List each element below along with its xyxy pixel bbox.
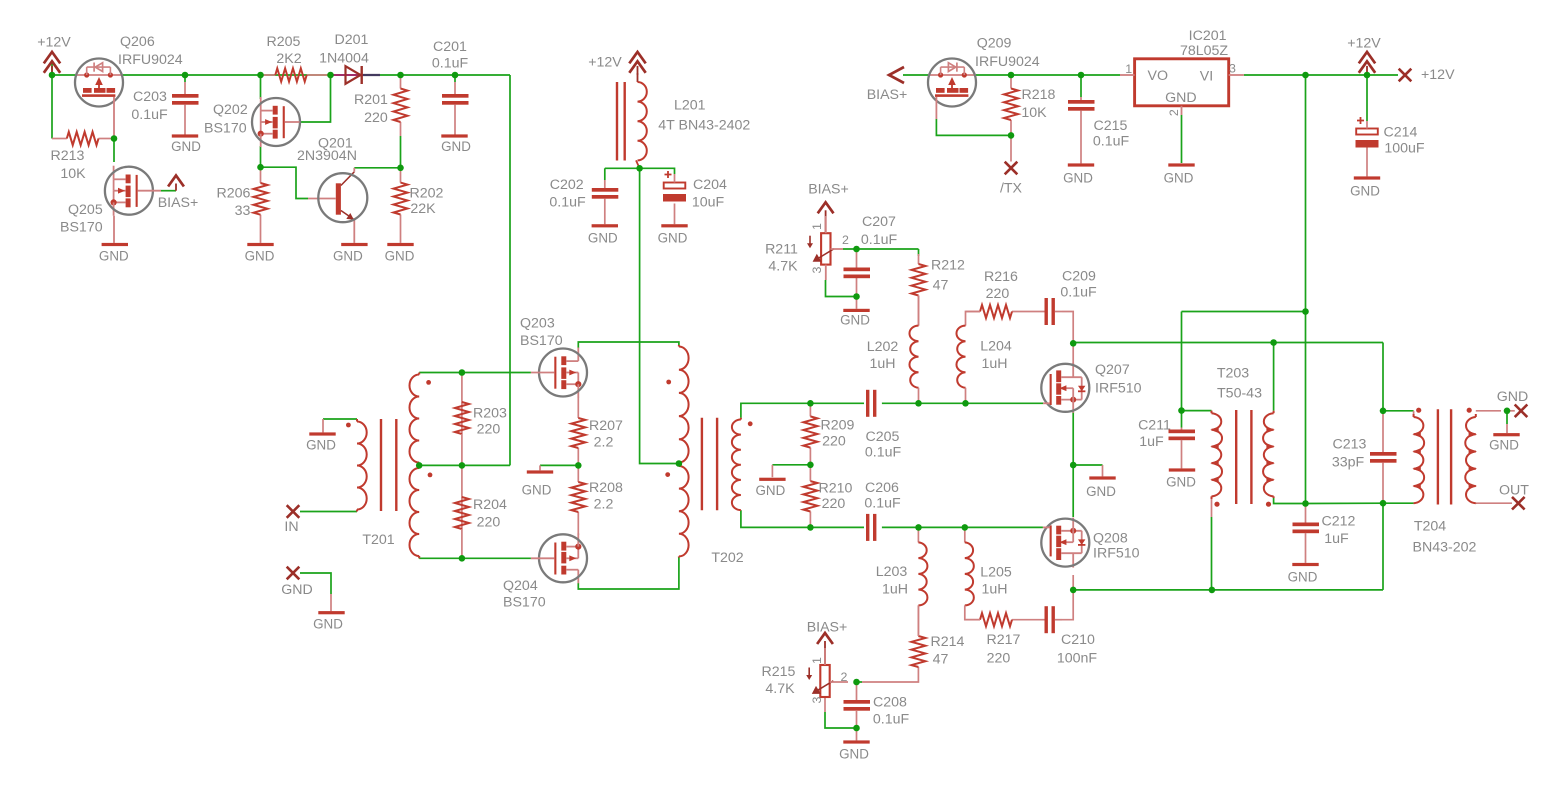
capacitor C205 0.1uF [865, 390, 902, 461]
junction at (1073.2,589.9) [1070, 587, 1077, 594]
svg-text:+12V: +12V [1347, 35, 1381, 51]
junction at (461.9,465.4) [459, 462, 466, 469]
svg-text:1uH: 1uH [981, 581, 1007, 597]
svg-text:1uH: 1uH [869, 356, 895, 372]
svg-text:GND: GND [171, 139, 201, 154]
wire R213 to Q205 drain [113, 139, 115, 163]
svg-text:GND: GND [658, 230, 688, 245]
svg-text:Q203: Q203 [520, 315, 555, 331]
capacitor C203 0.1uF [131, 82, 198, 135]
junction at (1011,75) [1008, 72, 1015, 79]
svg-text:IN: IN [284, 519, 298, 535]
svg-text:R214: R214 [931, 634, 965, 650]
transformer T204 core [1438, 409, 1451, 504]
svg-text:C203: C203 [133, 89, 167, 105]
wire Q208 source net [1073, 575, 1212, 590]
resistor R205 2K2 [261, 34, 331, 82]
trimmer R215 4.7K [762, 648, 848, 703]
junction at (260.5,167.2) [257, 164, 264, 171]
svg-text:GND: GND [245, 249, 275, 264]
transformer T203 left polarity dot [1214, 502, 1219, 507]
svg-text:IRFU9024: IRFU9024 [118, 52, 183, 68]
svg-text:GND: GND [588, 230, 618, 245]
wire Q202 source to R206/Q201 base [261, 146, 309, 199]
ground C204 [658, 224, 688, 245]
svg-text:33pF: 33pF [1332, 454, 1365, 470]
svg-text:220: 220 [364, 110, 388, 126]
capacitor C207 0.1uF [844, 214, 898, 278]
resistor R216 220 [966, 269, 1045, 318]
transformer T204 right winding [1465, 414, 1477, 503]
svg-text:GND: GND [281, 582, 313, 598]
junction at (1081,75) [1078, 72, 1085, 79]
svg-text:GND: GND [1164, 171, 1194, 186]
junction at (419.2,465.4) [416, 462, 423, 469]
svg-text:GND: GND [1350, 184, 1380, 199]
svg-text:2N3904N: 2N3904N [297, 148, 357, 164]
svg-text:R209: R209 [821, 417, 855, 433]
ground T201 stub [306, 432, 336, 452]
junction at (1073.2,465) [1070, 462, 1077, 469]
junction at (461.9,372.5) [459, 369, 466, 376]
wire C211 junction to T203 left [1182, 411, 1212, 428]
wire R215 pin3 to C208 bottom [825, 697, 857, 728]
svg-text:+12V: +12V [1421, 67, 1455, 83]
svg-text:10uF: 10uF [692, 194, 725, 210]
wire C205 rail [810, 402, 1043, 404]
wire C201 top [454, 75, 456, 82]
wire BIAS+ to Q209 [903, 74, 928, 76]
transformer T202 primary bottom dot [665, 472, 670, 477]
junction at (1383,503.2) [1380, 500, 1387, 507]
wire Q205 gate to BIAS+ [161, 190, 176, 192]
svg-text:GND: GND [756, 483, 786, 498]
svg-text:0.1uF: 0.1uF [131, 107, 168, 123]
svg-text:R217: R217 [987, 632, 1021, 648]
junction at (260.5,75) [257, 72, 264, 79]
wire R211 pin3 to C208 gnd net [826, 280, 857, 297]
transformer T203 left winding [1210, 411, 1222, 499]
resistor R218 10K [1004, 75, 1056, 135]
transistor Q205 BS170 [60, 166, 161, 243]
wire +12V rail top-left [52, 63, 75, 138]
svg-text:GND: GND [1497, 389, 1529, 405]
svg-text:0.1uF: 0.1uF [1060, 284, 1097, 300]
junction at (1073.2,343.3) [1070, 340, 1077, 347]
wire C206 rail [810, 526, 1043, 528]
svg-text:D201: D201 [335, 32, 369, 48]
transistor Q203 BS170 [520, 315, 587, 397]
svg-text:T203: T203 [1217, 365, 1249, 381]
svg-text:1N4004: 1N4004 [319, 50, 369, 66]
svg-text:L202: L202 [867, 339, 899, 355]
+12V supply symbol at L201 [588, 52, 645, 75]
wire L201 tap right to C204 [640, 168, 675, 174]
svg-text:IRFU9024: IRFU9024 [975, 54, 1040, 70]
X mark +12V [1399, 67, 1455, 83]
svg-text:Q204: Q204 [503, 578, 538, 594]
transistor Q207 IRF510 [1041, 362, 1141, 413]
svg-text:VO: VO [1148, 68, 1169, 84]
svg-text:L205: L205 [980, 564, 1012, 580]
wire R209/R210 junction to T202 GND [772, 465, 810, 477]
svg-text:R212: R212 [931, 257, 965, 273]
svg-text:3: 3 [810, 696, 824, 703]
junction at (856.5,296.5) [853, 293, 860, 300]
svg-text:GND: GND [99, 249, 129, 264]
ground C202 [588, 224, 618, 245]
svg-text:0.1uF: 0.1uF [861, 232, 898, 248]
wire R201 bottom to junction [400, 136, 402, 168]
svg-text:0.1uF: 0.1uF [432, 55, 469, 71]
svg-text:R216: R216 [984, 269, 1018, 285]
transformer T202 secondary dot [748, 421, 753, 426]
svg-text:C204: C204 [693, 177, 727, 193]
junction at (810.4,464.8) [807, 462, 814, 469]
wire R207/R208 junction to GND stub [540, 465, 578, 470]
svg-text:GND: GND [1288, 570, 1318, 585]
wire IC201 pin3 to +12V [1244, 74, 1398, 76]
wire IC201 GND pin [1181, 115, 1183, 163]
svg-text:100uF: 100uF [1384, 140, 1425, 156]
transformer T203 right winding [1263, 411, 1275, 498]
transformer T201 label [362, 532, 394, 548]
wire +12V vertical rail right [1305, 75, 1307, 504]
ground C212 [1288, 563, 1319, 585]
svg-text:GND: GND [840, 313, 870, 328]
junction at (918.5,527.4) [915, 524, 922, 531]
svg-text:C202: C202 [550, 177, 584, 193]
svg-text:1uH: 1uH [882, 581, 908, 597]
junction at (678.9,463.5) [676, 460, 683, 467]
BIAS+ arrow at Q209 [867, 67, 908, 103]
junction at (810.4,403.3) [807, 400, 814, 407]
transistor Q204 BS170 [503, 533, 587, 610]
svg-text:C206: C206 [865, 480, 899, 496]
svg-text:22K: 22K [410, 201, 436, 217]
svg-text:OUT: OUT [1499, 482, 1529, 498]
junction at (330.5,75) [327, 72, 334, 79]
svg-text:C214: C214 [1384, 124, 1418, 140]
capacitor C210 100nF [1045, 606, 1098, 666]
svg-text:BIAS+: BIAS+ [867, 87, 908, 103]
ground Q207 [1086, 476, 1116, 499]
svg-text:C208: C208 [873, 694, 907, 710]
svg-text:1uF: 1uF [1324, 531, 1349, 547]
svg-text:C211: C211 [1138, 417, 1171, 433]
junction at (461.9,558.3) [459, 555, 466, 562]
diode D201 1N4004 [319, 32, 380, 84]
junction at (918.5,403.3) [915, 400, 922, 407]
inductor L201 core [617, 82, 625, 161]
svg-text:C210: C210 [1061, 632, 1095, 648]
svg-text:T201: T201 [362, 532, 394, 548]
ground C201 [441, 134, 471, 154]
wire T203 left bottom down [1212, 496, 1384, 590]
svg-text:Q205: Q205 [68, 202, 103, 218]
wire C202 lead [604, 168, 606, 180]
wire C209 junction to T203 right [1073, 343, 1273, 411]
svg-text:IRF510: IRF510 [1095, 380, 1142, 396]
svg-text:BIAS+: BIAS+ [807, 619, 848, 635]
transformer T201 primary dot [346, 423, 351, 428]
junction at (1011,135.4) [1008, 132, 1015, 139]
wire T203 right bottom to C212 [1274, 496, 1306, 503]
svg-text:10K: 10K [60, 166, 86, 182]
ground Q205 [99, 243, 129, 264]
wire C207 bottom to GND [856, 277, 858, 309]
transformer T202 primary top dot [666, 380, 671, 385]
inductor L202 1uH [867, 296, 919, 404]
svg-text:Q208: Q208 [1093, 530, 1128, 546]
ground C208 [839, 740, 870, 761]
wire T204 right top to GND [1476, 410, 1515, 412]
svg-text:T50-43: T50-43 [1217, 385, 1262, 401]
wire gnd stub X [300, 573, 331, 611]
transistor Q206 IRFU9024 [75, 34, 183, 139]
wire T204 gnd stem [1506, 411, 1508, 433]
wire Q209 drain to R218/C215/IC201 [976, 74, 1120, 76]
transformer T203 right polarity dot [1266, 502, 1271, 507]
wire T202 sec top to C205 rail [741, 403, 811, 417]
junction at (1181.5,410.6) [1178, 407, 1185, 414]
resistor R201 220 [354, 75, 407, 136]
ground R202 [385, 243, 415, 264]
junction at (856.5,728) [853, 725, 860, 732]
svg-text:GND: GND [1165, 90, 1197, 106]
svg-text:Q202: Q202 [213, 102, 248, 118]
svg-text:T204: T204 [1414, 518, 1446, 534]
junction at (455,75) [452, 72, 459, 79]
svg-text:GND: GND [385, 249, 415, 264]
transformer T204 right polarity dot [1467, 408, 1472, 413]
ground C215 [1063, 163, 1094, 185]
resistor R213 10K [51, 132, 114, 182]
capacitor C214 100uF [1356, 117, 1425, 176]
wire Q202 gate to D201 anode [300, 75, 331, 122]
X mark GND stub [281, 567, 313, 598]
junction at (1367,75) [1364, 72, 1371, 79]
transistor Q209 IRFU9024 [928, 35, 1040, 119]
wire T203 right top extend [1274, 343, 1383, 411]
svg-text:0.1uF: 0.1uF [865, 444, 902, 460]
svg-text:220: 220 [477, 421, 501, 437]
svg-text:GND: GND [333, 249, 363, 264]
capacitor C213 33pF [1332, 411, 1397, 503]
+12V supply symbol right [1347, 35, 1381, 75]
wire T204 right bottom to OUT [1476, 502, 1512, 504]
wire L201 tap left to C202 [605, 167, 640, 169]
svg-text:100nF: 100nF [1057, 650, 1098, 666]
capacitor C215 0.1uF [1068, 97, 1129, 163]
wire Q209 gate to R218 bottom [936, 119, 1011, 135]
resistor R204 220 [455, 465, 507, 558]
transformer T202 label [711, 550, 743, 566]
junction at (114,138.5) [111, 135, 118, 142]
svg-text:C201: C201 [433, 39, 467, 55]
svg-text:R204: R204 [473, 497, 507, 513]
capacitor C212 1uF [1293, 504, 1356, 563]
svg-text:R213: R213 [51, 148, 85, 164]
svg-text:R211: R211 [765, 241, 798, 257]
wire C209 to Q207 drain [1062, 312, 1073, 344]
resistor R208 2.2 [571, 465, 623, 535]
svg-text:R202: R202 [410, 185, 444, 201]
wire T204 left top [1383, 411, 1414, 417]
svg-text:2K2: 2K2 [276, 51, 301, 67]
svg-text:T202: T202 [711, 550, 743, 566]
ground C214 [1350, 176, 1380, 198]
svg-text:220: 220 [986, 286, 1010, 302]
svg-text:IC201: IC201 [1189, 28, 1227, 44]
svg-text:L203: L203 [876, 564, 908, 580]
svg-text:1: 1 [1125, 62, 1132, 76]
svg-text:3: 3 [1229, 61, 1236, 75]
regulator IC201 78L05Z [1120, 28, 1244, 116]
svg-text:3: 3 [810, 266, 824, 273]
svg-text:220: 220 [987, 650, 1011, 666]
svg-text:C205: C205 [866, 429, 900, 445]
transformer T203 core [1236, 410, 1251, 504]
svg-text:R207: R207 [589, 418, 623, 434]
svg-text:1uF: 1uF [1139, 434, 1164, 450]
svg-text:Q206: Q206 [120, 34, 155, 50]
svg-text:R201: R201 [354, 92, 388, 108]
resistor R210 220 [803, 465, 852, 528]
svg-text:BN43-202: BN43-202 [1413, 539, 1477, 555]
transformer T204 left polarity dot [1416, 408, 1421, 413]
junction at (964.8,527.4) [962, 524, 969, 531]
svg-text:R208: R208 [589, 480, 623, 496]
ground C207 [840, 309, 870, 328]
wire T201 primary bottom to IN [300, 510, 357, 512]
svg-text:BS170: BS170 [60, 219, 103, 235]
transistor Q201 2N3904N [297, 135, 367, 242]
BIAS+ arrow at Q205 [158, 176, 199, 211]
svg-text:4.7K: 4.7K [768, 258, 798, 274]
wire C203 top [184, 75, 186, 82]
transformer T203 labels [1217, 365, 1262, 401]
svg-text:GND: GND [522, 483, 552, 498]
wire C208 bottom to GND [856, 711, 858, 740]
svg-text:R203: R203 [473, 405, 507, 421]
wire C212 rail to C213/T204 [1306, 502, 1414, 504]
junction at (1507,410.8) [1504, 408, 1511, 415]
transformer T201 primary winding [357, 419, 367, 512]
svg-text:R205: R205 [267, 34, 301, 50]
svg-text:R218: R218 [1022, 87, 1056, 103]
wire Q207 source to GND [1073, 412, 1102, 476]
junction at (965.5,403.3) [962, 400, 969, 407]
ground Q203 stub [522, 470, 554, 497]
svg-text:BS170: BS170 [204, 120, 247, 136]
svg-text:1: 1 [810, 657, 824, 664]
ground T202 [756, 478, 786, 498]
X mark OUT [1499, 482, 1529, 509]
inductor L204 1uH [956, 312, 1011, 404]
svg-text:220: 220 [477, 514, 501, 530]
svg-text:4T BN43-2402: 4T BN43-2402 [658, 117, 750, 133]
inductor L201 4T BN43-2402 [636, 73, 750, 168]
transformer T202 core [702, 418, 717, 511]
transistor Q208 IRF510 [1041, 518, 1139, 568]
ground T204 [1489, 433, 1520, 452]
wire Q203 drain to T202 primary top [578, 342, 679, 348]
svg-text:47: 47 [933, 277, 949, 293]
junction at (1305.5,503.5) [1302, 500, 1309, 507]
svg-text:2: 2 [1167, 109, 1181, 116]
ground IC201 [1164, 163, 1195, 185]
svg-text:1uH: 1uH [981, 356, 1007, 372]
svg-text:2: 2 [841, 670, 848, 684]
svg-text:BIAS+: BIAS+ [158, 195, 199, 211]
svg-text:BIAS+: BIAS+ [808, 182, 849, 198]
svg-text:GND: GND [1086, 484, 1116, 499]
ground Q201 [333, 243, 368, 264]
svg-text:C207: C207 [862, 214, 896, 230]
junction at (810.4,527.4) [807, 524, 814, 531]
X mark GND right [1497, 389, 1529, 417]
junction at (1305.5,311.5) [1302, 308, 1309, 315]
capacitor C206 0.1uF [864, 480, 901, 541]
transformer T204 labels [1413, 518, 1477, 555]
junction at (856.5,249) [853, 246, 860, 253]
svg-text:VI: VI [1200, 68, 1213, 84]
svg-text:1: 1 [810, 223, 824, 230]
svg-text:2.2: 2.2 [594, 496, 614, 512]
junction at (185,75) [182, 72, 189, 79]
junction at (400.5,167.8) [397, 165, 404, 172]
transformer T202 primary top winding [679, 345, 689, 464]
svg-text:0.1uF: 0.1uF [864, 495, 901, 511]
wire T201 sec center tap [419, 463, 510, 466]
capacitor C202 0.1uF [549, 177, 618, 224]
transformer T202 secondary winding [732, 418, 741, 511]
svg-text:0.1uF: 0.1uF [873, 711, 910, 727]
trimmer R211 4.7K [765, 216, 849, 280]
wire Q207 source to Q208 drain [1072, 465, 1074, 517]
svg-text:BS170: BS170 [520, 333, 563, 349]
svg-text:L204: L204 [980, 338, 1012, 354]
svg-text:C212: C212 [1322, 513, 1356, 529]
svg-text:+12V: +12V [37, 34, 71, 50]
svg-text:C213: C213 [1333, 436, 1367, 452]
svg-text:78L05Z: 78L05Z [1180, 43, 1228, 59]
transformer T201 secondary bottom winding [410, 465, 420, 558]
wire T202 sec bottom to C206 rail [741, 510, 811, 527]
junction at (400.5,75) [397, 72, 404, 79]
svg-text:10K: 10K [1021, 105, 1047, 121]
svg-text:Q207: Q207 [1095, 362, 1130, 378]
capacitor C211 1uF [1138, 417, 1195, 468]
svg-text:C209: C209 [1062, 268, 1096, 284]
svg-text:R206: R206 [217, 185, 251, 201]
BIAS+ arrow at R215 [807, 619, 848, 665]
ground R206 [245, 243, 275, 264]
capacitor C209 0.1uF [1045, 268, 1097, 325]
resistor R214 47 [911, 605, 964, 667]
transistor Q202 BS170 [204, 97, 300, 147]
junction at (856.5,682) [853, 679, 860, 686]
wire R211 wiper to C207/R212 [843, 249, 919, 256]
svg-text:GND: GND [441, 139, 471, 154]
svg-text:GND: GND [839, 747, 869, 762]
X mark /TX [1000, 162, 1023, 197]
wire C210 to Q208 source [1062, 590, 1073, 620]
svg-text:R215: R215 [762, 664, 796, 680]
transformer T201 core [381, 419, 396, 511]
junction at (1383,410.8) [1380, 408, 1387, 415]
